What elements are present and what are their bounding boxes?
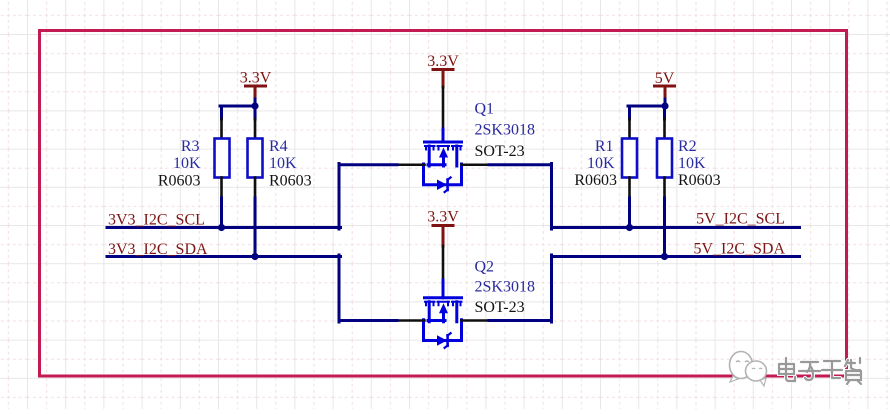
- wire 3V3_I2C_SCL row: [107, 226, 341, 229]
- wire 3V3_I2C_SDA row: [107, 255, 341, 258]
- watermark logo (chat bubbles): [730, 352, 767, 387]
- wire rise Q2 drain to 5V SDA row: [550, 255, 553, 322]
- node R2 junction on SDA: [661, 253, 668, 260]
- svg-text:3.3V: 3.3V: [240, 70, 272, 87]
- svg-text:R1: R1: [595, 138, 614, 155]
- svg-text:3.3V: 3.3V: [427, 209, 459, 226]
- svg-text:R0603: R0603: [269, 173, 312, 190]
- node R1 junction on SCL: [626, 224, 633, 231]
- wire drop Q1 drain to 5V SCL row: [550, 164, 553, 230]
- svg-text:2SK3018: 2SK3018: [475, 279, 535, 296]
- transistor Q1 (2SK3018 N-MOSFET): [424, 129, 462, 192]
- wire 3.3V to Q1 gate: [442, 87, 445, 129]
- svg-text:R0603: R0603: [158, 173, 201, 190]
- pin Q1 source (black stub): [397, 163, 425, 166]
- wire Q2 drain horizontal: [489, 319, 552, 322]
- resistor R1: [574, 106, 637, 228]
- svg-text:R3: R3: [181, 138, 200, 155]
- svg-text:10K: 10K: [269, 155, 297, 172]
- svg-text:5V_I2C_SCL: 5V_I2C_SCL: [696, 211, 785, 228]
- svg-text:Q1: Q1: [475, 101, 495, 118]
- svg-text:SOT-23: SOT-23: [475, 143, 525, 160]
- svg-text:5V: 5V: [655, 70, 675, 87]
- wire riser SCL to Q1 source: [338, 164, 341, 230]
- power port 3.3V (middle, gate of Q2): [427, 209, 459, 247]
- svg-text:5V_I2C_SDA: 5V_I2C_SDA: [693, 241, 785, 258]
- power port 5V (right, above R1/R2): [655, 70, 675, 99]
- resistor R2: [657, 106, 721, 257]
- svg-text:Q2: Q2: [475, 259, 495, 276]
- transistor Q2 (2SK3018 N-MOSFET): [424, 280, 462, 348]
- wire Q1 source horizontal: [339, 163, 397, 166]
- resistor R3: [158, 106, 230, 228]
- svg-text:R0603: R0603: [678, 172, 721, 189]
- node R3 junction on SCL: [218, 224, 225, 231]
- node junction at 5V rail: [661, 102, 668, 109]
- svg-text:3.3V: 3.3V: [427, 53, 459, 70]
- wire 3.3V stem to junction: [254, 99, 257, 106]
- svg-text:R2: R2: [678, 138, 697, 155]
- wire branch junction to R3 column: [220, 105, 257, 108]
- svg-text:SOT-23: SOT-23: [475, 299, 525, 316]
- watermark text DianZiGanHuo: [779, 358, 861, 384]
- wire 5V stem to junction: [664, 99, 667, 106]
- svg-text:3V3_I2C_SDA: 3V3_I2C_SDA: [108, 241, 208, 258]
- wire Q1 drain horizontal: [489, 163, 552, 166]
- pin Q2 source (black stub): [397, 319, 425, 322]
- wire 3.3V to Q2 gate: [442, 246, 445, 280]
- wire Q2 source horizontal: [339, 319, 397, 322]
- wire 5V_I2C_SCL row: [552, 226, 800, 229]
- pin Q1 drain (black stub): [462, 163, 490, 166]
- power port 3.3V (middle top, gate of Q1): [427, 53, 459, 87]
- wire 5V_I2C_SDA row: [552, 255, 800, 258]
- pin Q2 drain (black stub): [462, 319, 490, 322]
- svg-text:R4: R4: [269, 138, 288, 155]
- node junction at 3.3V rail: [251, 102, 258, 109]
- node R4 junction on SDA: [251, 253, 258, 260]
- border frame: [40, 31, 847, 377]
- svg-text:10K: 10K: [678, 155, 706, 172]
- power port 3.3V (left, above R3/R4): [240, 70, 272, 100]
- resistor R4: [248, 106, 312, 257]
- svg-text:10K: 10K: [587, 155, 615, 172]
- wire branch junction to R1 column: [628, 105, 667, 108]
- svg-text:10K: 10K: [173, 155, 201, 172]
- svg-text:3V3_I2C_SCL: 3V3_I2C_SCL: [108, 212, 205, 229]
- svg-text:R0603: R0603: [574, 172, 617, 189]
- wire drop SDA to Q2 source: [338, 255, 341, 322]
- svg-text:2SK3018: 2SK3018: [475, 122, 535, 139]
